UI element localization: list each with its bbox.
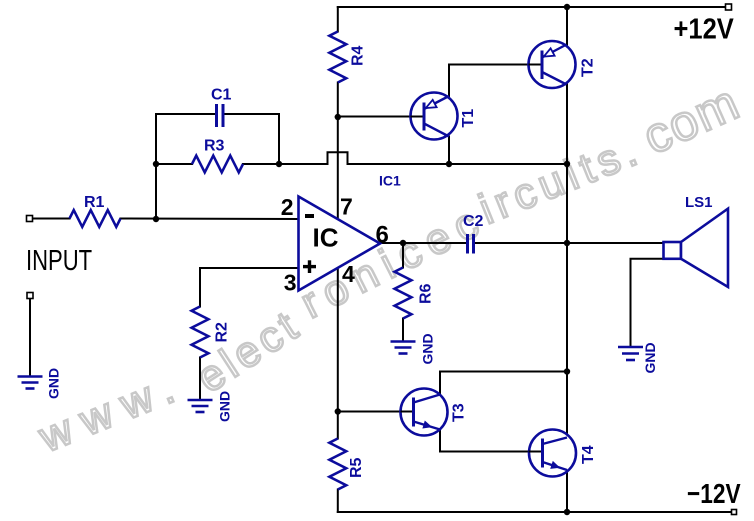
wire R2 bottom to GND bbox=[199, 358, 201, 401]
wire T1 base bbox=[338, 116, 411, 118]
svg-text:GND: GND bbox=[420, 333, 436, 364]
wire T3 collector up and over to right vertical bbox=[440, 372, 567, 395]
transistor T1 bbox=[411, 93, 458, 140]
svg-text:7: 7 bbox=[340, 194, 353, 220]
svg-text:T4: T4 bbox=[580, 445, 597, 464]
node T2 collector bbox=[564, 161, 570, 167]
svg-text:GND: GND bbox=[642, 342, 658, 373]
transistor T2 bbox=[529, 41, 576, 88]
speaker LS1 bbox=[664, 209, 729, 287]
wire T2 emitter to top rail bbox=[566, 7, 568, 45]
node T4 emitter / bottom rail bbox=[564, 509, 570, 515]
wire T1 emitter up and over to T2 base bbox=[449, 65, 529, 97]
svg-text:3: 3 bbox=[284, 270, 297, 296]
svg-text:R1: R1 bbox=[84, 194, 105, 211]
wire R6 bottom to GND bbox=[402, 319, 404, 342]
node feedback left bbox=[153, 161, 159, 167]
resistor R4 bbox=[329, 32, 346, 83]
terminal input upper bbox=[27, 216, 33, 222]
op-amp minus sign bbox=[305, 214, 314, 218]
svg-text:R5: R5 bbox=[348, 457, 365, 478]
capacitor C2 bbox=[468, 234, 474, 254]
svg-text:IC1: IC1 bbox=[379, 173, 401, 189]
wire R5 bottom to bottom rail bbox=[337, 490, 339, 513]
svg-text:T3: T3 bbox=[451, 403, 468, 422]
svg-text:INPUT: INPUT bbox=[26, 245, 92, 277]
op-amp plus sign bbox=[303, 260, 316, 273]
svg-text:GND: GND bbox=[217, 391, 233, 422]
wire R2 top bbox=[199, 268, 201, 307]
terminal input lower bbox=[27, 293, 33, 299]
wire C1 right to R3 right vertical bbox=[223, 114, 279, 164]
wire R4 top lead bbox=[337, 7, 339, 32]
wire feedback left vertical bbox=[156, 114, 216, 219]
node pin4 line / T3 base bbox=[335, 408, 341, 414]
svg-text:T1: T1 bbox=[460, 109, 477, 128]
op-amp IC1 triangle bbox=[299, 197, 381, 291]
resistor R5 bbox=[329, 439, 346, 490]
svg-text:LS1: LS1 bbox=[685, 194, 713, 211]
terminal -12V bbox=[732, 510, 737, 515]
svg-text:IC: IC bbox=[313, 223, 339, 253]
node input/R1 bbox=[153, 216, 159, 222]
node T3 collector / right vertical bbox=[564, 368, 570, 374]
svg-text:R3: R3 bbox=[204, 138, 225, 155]
wire top rail +12V bbox=[338, 6, 726, 8]
svg-text:R2: R2 bbox=[214, 322, 231, 343]
wire T3 emitter down to T4 base bbox=[440, 430, 529, 452]
node top rail / T2 emitter bbox=[564, 4, 570, 10]
ground (R6) bbox=[391, 342, 416, 354]
wire C2 right to speaker bbox=[475, 242, 664, 244]
wire R4 bottom to op-amp pin 7 bbox=[337, 83, 339, 221]
svg-text:+12V: +12V bbox=[674, 12, 735, 45]
wire bottom rail -12V bbox=[338, 511, 732, 513]
wire op-amp pin 4 down to T3 base node bbox=[337, 268, 339, 439]
transistor T3 bbox=[401, 389, 448, 436]
wire T2 collector down main right vertical bbox=[566, 85, 568, 438]
node feedback right bbox=[276, 161, 282, 167]
svg-text:−12V: −12V bbox=[687, 479, 741, 510]
svg-text:R6: R6 bbox=[418, 283, 435, 304]
svg-text:2: 2 bbox=[281, 194, 294, 220]
ground (speaker) bbox=[618, 347, 643, 360]
terminal +12V bbox=[726, 4, 732, 10]
ground (input) bbox=[18, 377, 43, 389]
node R4/T1 base bbox=[335, 114, 341, 120]
node output / right vertical bbox=[564, 240, 570, 246]
wire R1 to op-amp pin 2 bbox=[121, 218, 299, 221]
wire R3 left lead bbox=[156, 163, 192, 165]
transistor T4 bbox=[529, 430, 577, 477]
wire op-amp output bbox=[380, 242, 466, 244]
resistor R2 bbox=[192, 307, 209, 358]
wire R3 right lead to crossover bump to T1/T2 node bbox=[243, 152, 567, 164]
wire T1 collector down bbox=[448, 137, 450, 165]
watermark www.electronicircuits.com bbox=[32, 74, 748, 463]
resistor R3 bbox=[192, 156, 243, 173]
wire op-amp pin 3 bbox=[200, 267, 299, 269]
capacitor C1 bbox=[217, 104, 224, 127]
resistor R6 bbox=[395, 268, 412, 319]
svg-text:C2: C2 bbox=[463, 213, 484, 230]
wire R6 top bbox=[402, 243, 404, 268]
wire input lower terminal to GND bbox=[29, 299, 31, 377]
wire input to R1 bbox=[33, 218, 70, 220]
node output / R6 bbox=[400, 240, 406, 246]
svg-text:R4: R4 bbox=[350, 45, 367, 66]
node T1 collector bbox=[446, 161, 452, 167]
wire T3 base bbox=[338, 411, 401, 413]
svg-text:4: 4 bbox=[342, 261, 355, 287]
svg-text:C1: C1 bbox=[211, 87, 232, 104]
resistor R1 bbox=[70, 210, 121, 227]
wire speaker lower pin to GND bbox=[631, 259, 665, 347]
svg-text:T2: T2 bbox=[580, 58, 597, 77]
svg-text:6: 6 bbox=[376, 222, 389, 249]
wire T4 emitter to bottom rail bbox=[566, 470, 568, 512]
svg-text:GND: GND bbox=[46, 368, 62, 399]
ground (R2) bbox=[188, 400, 213, 412]
